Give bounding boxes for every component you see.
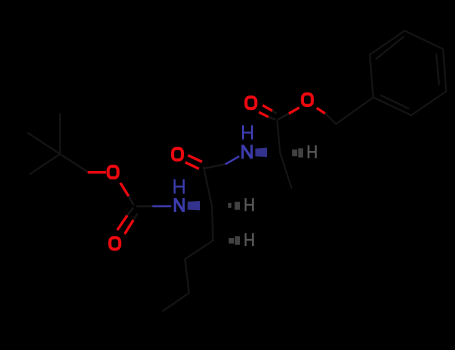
O3 amide =O [173,148,183,160]
dark (near-invisible) bond halves at carbon ends [127,111,288,220]
ester C=O double bond [259,105,272,117]
O2 carbamate =O [110,238,120,250]
O4 ester =O [246,97,256,109]
N2 label [243,145,252,159]
hashed bond beta-H [229,236,240,245]
blue C-N bond halves [152,156,239,206]
alpha2 methyl stub [280,153,292,189]
amide C=O double bond [185,155,202,169]
O labels: custom rounded-rect ring glyphs [108,94,312,249]
red bond: tBu-O half [88,105,325,234]
gray stereo H on alpha1 [246,198,253,211]
bond alpha1 to beta C [212,206,213,241]
ester C-O single bond (half near O5) [289,108,299,114]
tert-butyl C(CH3)3 [28,114,88,174]
isoleucine side chain zig-zag [163,241,213,312]
O5 ester -O- [302,94,312,106]
O1 Boc ester O [108,166,118,178]
navy wedge bond N1-alpha1 [188,201,200,210]
gray stereo H on beta [246,233,253,246]
gray stereo H on alpha2 [309,145,316,158]
bond alpha2 up to ester carbonyl C [277,121,280,153]
hashed bond alpha2-H [292,148,303,157]
hashed bond alpha1-H [228,202,240,210]
red bond: O1 to carbamate C [120,183,128,196]
H on N2 [243,125,252,139]
phenyl inner aromatic lines [376,37,403,59]
N1 label [175,198,184,212]
O5-CH2 bond half [317,108,325,114]
phenyl ring [370,31,446,116]
faint carbon skeleton [28,31,446,311]
O1 to carbamate C, carbon end [129,196,134,205]
ester C=O carbon stubs [269,111,277,120]
benzyl CH2 [325,97,373,124]
bond alpha1 to amide carbonyl C [204,167,213,206]
carbamate C-N1 bond, carbon half [136,205,152,207]
ester C-O5, carbon half [277,114,289,120]
carbamate C=O double bond [117,215,133,234]
amide C-N2 bond, carbon half [204,164,225,168]
H on N1 [175,179,184,193]
navy wedge bond N2-alpha2 [255,148,267,157]
carbamate C=O, carbon halves [127,208,137,221]
